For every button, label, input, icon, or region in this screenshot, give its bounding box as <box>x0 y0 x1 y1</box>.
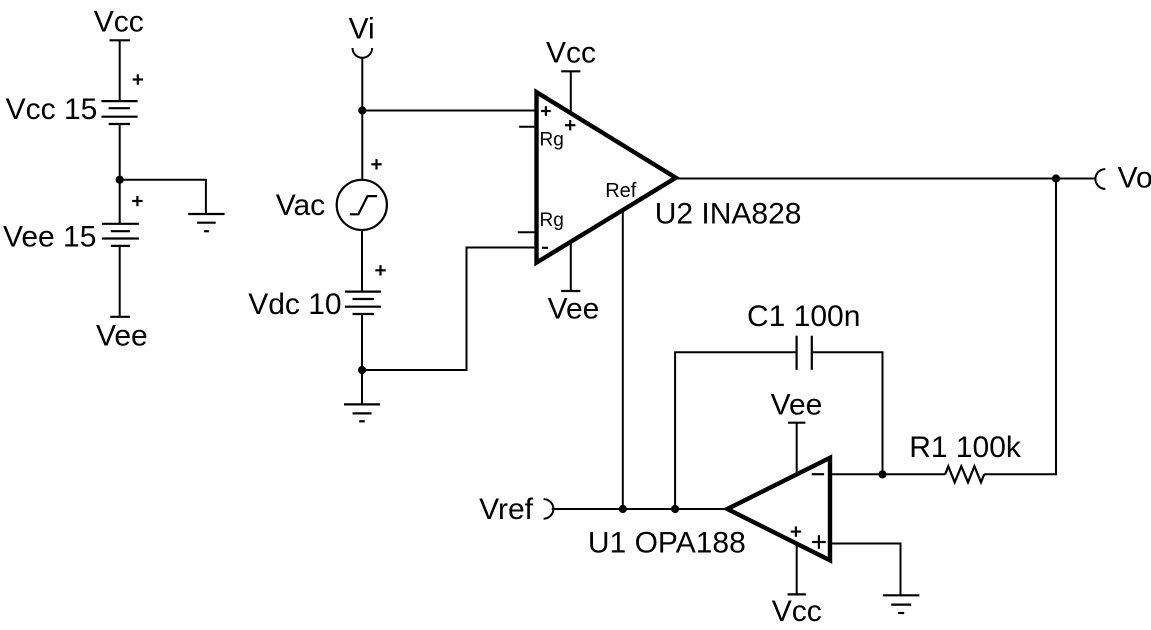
value label R1 100k <box>909 431 1022 464</box>
source Vac waveform <box>350 196 377 214</box>
wire Ref pin down <box>622 210 624 509</box>
wire <box>361 230 363 292</box>
ground (left supply) <box>188 214 224 231</box>
U2 supply plus label <box>565 120 575 130</box>
source Vac circle <box>337 180 387 230</box>
wire <box>119 124 121 180</box>
ground (source) <box>344 404 380 421</box>
junction <box>116 176 124 184</box>
svg-text:U1 OPA188: U1 OPA188 <box>588 526 746 559</box>
net label Vcc (U1) <box>772 595 822 628</box>
power pin Vee U1 <box>788 423 805 475</box>
battery V Vcc 15 <box>101 101 137 124</box>
svg-text:Vee: Vee <box>548 293 600 326</box>
net label Vee (U2) <box>548 293 600 326</box>
source Vac plus mark <box>371 159 381 169</box>
io terminal Vo <box>1095 169 1105 189</box>
node label Vi <box>349 12 375 45</box>
pin label Ref <box>605 180 637 202</box>
U2 -in label <box>542 247 548 249</box>
svg-text:Vcc: Vcc <box>772 595 822 628</box>
wire U1 -in <box>830 473 883 475</box>
io terminal Vref <box>544 499 554 519</box>
part label U1 OPA188 <box>588 526 746 559</box>
svg-text:Ref: Ref <box>605 180 637 202</box>
junction C1 net <box>671 505 679 513</box>
resistor R1 zigzag <box>945 466 984 482</box>
power pin Vee U2 <box>561 242 580 291</box>
node label Vref <box>479 493 534 526</box>
battery V Vcc 15 plus mark <box>133 74 143 84</box>
battery V Vee 15 <box>102 224 139 246</box>
wire <box>812 352 883 474</box>
wire to U2 -in <box>362 248 537 371</box>
svg-text:Vo: Vo <box>1118 161 1151 194</box>
value label C1 100n <box>747 300 860 333</box>
battery Vdc 10 <box>345 292 381 314</box>
U1 supply plus label <box>791 526 801 536</box>
pin stub Rg bottom <box>518 231 537 233</box>
U1 -in label <box>812 473 824 475</box>
wire <box>1056 178 1095 180</box>
source label Vac <box>276 189 325 222</box>
wire <box>119 246 121 317</box>
U1 +in label <box>812 535 826 549</box>
op-amp U1 OPA188 triangle <box>727 458 830 561</box>
svg-text:R1 100k: R1 100k <box>909 431 1022 464</box>
power terminal Vee <box>110 316 130 318</box>
junction Ref net <box>619 505 627 513</box>
junction node Vo <box>1052 174 1060 182</box>
svg-text:Vcc: Vcc <box>94 5 144 38</box>
node label Vo <box>1118 161 1151 194</box>
wire <box>984 179 1056 475</box>
svg-text:Vac: Vac <box>276 189 325 222</box>
battery V Vee 15 plus mark <box>132 196 142 206</box>
wire <box>883 473 945 475</box>
part label U2 INA828 <box>655 197 802 230</box>
net label Vee (bottom left) <box>96 320 148 353</box>
pin label Rg (top) <box>540 129 564 150</box>
svg-text:C1 100n: C1 100n <box>747 300 860 333</box>
pin label Rg (bottom) <box>540 210 564 231</box>
svg-text:Vee 15: Vee 15 <box>3 221 96 254</box>
wire to U2 +in <box>362 110 536 112</box>
svg-text:Rg: Rg <box>540 210 564 231</box>
junction <box>878 470 886 478</box>
power terminal Vcc <box>110 39 130 41</box>
ground (U1 +in) <box>883 595 920 613</box>
svg-text:Vdc 10: Vdc 10 <box>248 288 341 321</box>
net label Vcc (top left) <box>94 5 144 38</box>
svg-text:Vcc: Vcc <box>546 37 596 70</box>
wire <box>119 40 121 101</box>
svg-text:Vee: Vee <box>771 389 823 422</box>
net label Vee (U1) <box>771 389 823 422</box>
wire U2 output <box>676 178 1056 180</box>
svg-text:Vee: Vee <box>96 320 148 353</box>
value label Vdc 10 <box>248 288 341 321</box>
wire <box>361 314 363 370</box>
wire <box>120 180 206 214</box>
wire <box>361 370 363 404</box>
wire <box>361 58 363 111</box>
wire U1 output <box>552 508 728 510</box>
net label Vcc (U2) <box>546 37 596 70</box>
U2 +in label <box>541 106 551 116</box>
io terminal Vi <box>353 48 373 58</box>
power pin Vcc U2 <box>561 71 580 113</box>
svg-text:U2 INA828: U2 INA828 <box>655 197 802 230</box>
junction node Vi <box>358 106 366 114</box>
svg-text:Vcc 15: Vcc 15 <box>6 93 98 126</box>
value label Vcc 15 <box>6 93 98 126</box>
wire <box>675 352 797 509</box>
op-amp U2 INA828 triangle <box>537 92 676 263</box>
wire <box>119 180 121 224</box>
svg-text:Rg: Rg <box>540 129 564 150</box>
power pin Vcc U1 <box>788 544 806 595</box>
wire <box>361 111 363 181</box>
svg-text:Vi: Vi <box>349 12 375 45</box>
value label Vee 15 <box>3 221 96 254</box>
battery Vdc plus mark <box>375 265 385 275</box>
capacitor C1 plates <box>797 336 812 370</box>
svg-text:Vref: Vref <box>479 493 534 526</box>
junction <box>358 366 366 374</box>
pin stub Rg top <box>519 126 536 128</box>
wire U1 +in to ground <box>830 544 901 596</box>
